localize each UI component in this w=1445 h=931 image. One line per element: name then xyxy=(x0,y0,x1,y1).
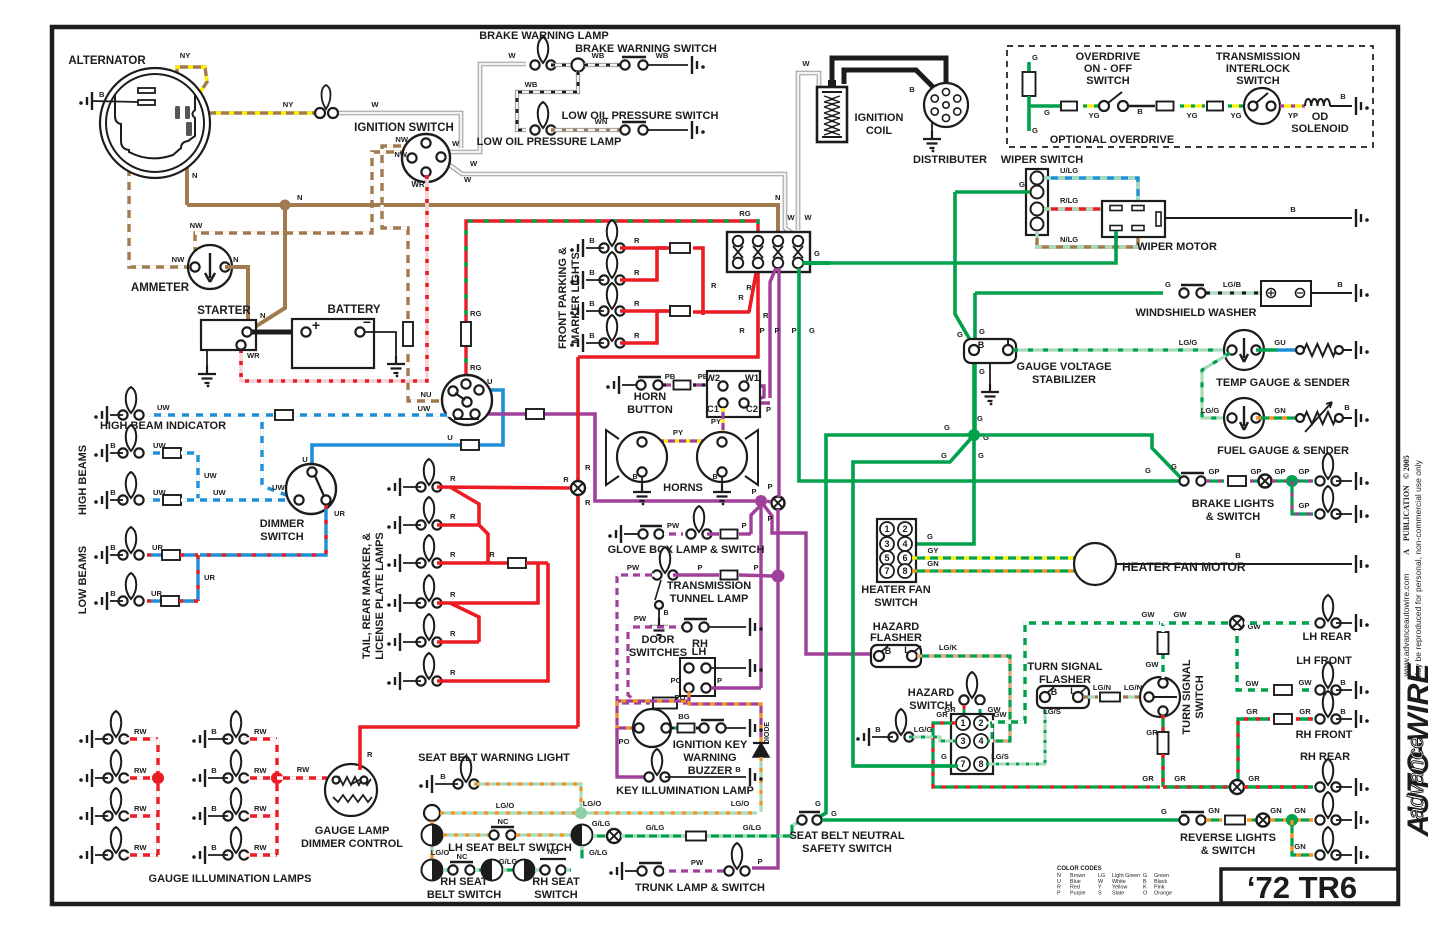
wire LGG hazard xyxy=(909,737,956,741)
brake light switch xyxy=(1179,476,1188,485)
reverse lamp 2 xyxy=(1323,827,1334,853)
RH REAR lamp xyxy=(1323,759,1334,785)
svg-text:A PUBLICATION © 2005: A PUBLICATION © 2005 xyxy=(1402,455,1411,555)
svg-text:GN: GN xyxy=(1274,406,1285,415)
heater fan switch box xyxy=(877,519,916,582)
wire GW hazard riser xyxy=(992,623,1160,722)
svg-text:BUTTON: BUTTON xyxy=(627,404,673,416)
svg-text:R: R xyxy=(450,590,456,599)
svg-text:GN: GN xyxy=(1270,806,1281,815)
svg-text:SWITCHES: SWITCHES xyxy=(629,647,687,659)
hazard flasher box xyxy=(871,645,921,667)
svg-text:R: R xyxy=(585,463,591,472)
svg-text:GAUGE ILLUMINATION LAMPS: GAUGE ILLUMINATION LAMPS xyxy=(149,873,312,885)
horn button ground xyxy=(606,385,610,389)
glove box switch xyxy=(638,529,647,538)
svg-text:RW: RW xyxy=(254,727,267,736)
wire P lighting switch right xyxy=(480,412,526,416)
svg-text:R: R xyxy=(711,281,717,290)
svg-text:LG/O: LG/O xyxy=(496,801,515,810)
high beam indicator lamp xyxy=(126,387,137,413)
battery box xyxy=(292,319,374,368)
svg-text:N: N xyxy=(297,193,302,202)
svg-text:G/LG: G/LG xyxy=(589,848,608,857)
fuse at x=738 xyxy=(733,236,743,246)
wire R trunk vertical xyxy=(576,357,580,727)
svg-text:LG/K: LG/K xyxy=(939,643,958,652)
wire PW trunk xyxy=(664,869,729,872)
wire B solenoid xyxy=(1330,105,1352,107)
svg-text:B: B xyxy=(712,474,717,481)
svg-text:www.advanceautowire.com: www.advanceautowire.com xyxy=(1401,574,1411,678)
wire G fuse4 right xyxy=(803,261,830,265)
svg-text:RG: RG xyxy=(470,309,481,318)
svg-text:BELT SWITCH: BELT SWITCH xyxy=(427,889,501,901)
svg-text:R/LG: R/LG xyxy=(1060,196,1078,205)
connector front2 xyxy=(670,306,690,316)
ignition switch S1 xyxy=(402,134,450,182)
wire to ground low oil switch xyxy=(648,129,688,131)
horn button switch xyxy=(636,380,645,389)
svg-text:GW: GW xyxy=(1145,660,1159,669)
svg-text:G: G xyxy=(1161,807,1167,816)
wire W ignition to fusebox xyxy=(444,161,795,235)
wire UR lowbeam1 xyxy=(147,553,162,556)
svg-text:B: B xyxy=(1340,707,1346,716)
wire R dimmer control up xyxy=(360,727,578,770)
wire P relay jumper W1 C2 xyxy=(749,386,764,401)
svg-text:WIPER SWITCH: WIPER SWITCH xyxy=(1001,154,1084,166)
connector RG inline xyxy=(461,322,471,346)
wire G wiper feed xyxy=(955,190,1030,194)
svg-text:NY: NY xyxy=(283,100,294,109)
wire RW A2 xyxy=(124,776,158,779)
svg-text:UW: UW xyxy=(418,404,431,413)
lighting switch S2 xyxy=(442,375,492,425)
svg-text:IGNITION: IGNITION xyxy=(855,112,904,124)
svg-text:YP: YP xyxy=(1288,111,1298,120)
wire P fuse3 to relay xyxy=(770,268,776,398)
starter box xyxy=(201,320,256,350)
svg-text:UW: UW xyxy=(153,441,166,450)
svg-text:GAUGE VOLTAGE: GAUGE VOLTAGE xyxy=(1017,361,1112,373)
svg-text:COLOR CODES: COLOR CODES xyxy=(1057,866,1102,872)
svg-text:P: P xyxy=(759,326,764,335)
ignition key warning buzzer xyxy=(633,709,671,747)
wire B coil to distributor top xyxy=(832,58,946,94)
svg-text:LG/B: LG/B xyxy=(1223,280,1242,289)
wire GR hazard 1 xyxy=(933,723,1160,787)
wire B alternator ground lead xyxy=(92,101,138,102)
svg-text:GW: GW xyxy=(1173,610,1187,619)
wire B od xyxy=(1128,105,1155,108)
svg-text:B: B xyxy=(589,236,595,245)
tail lamp 6 xyxy=(424,653,435,679)
connector GR RF xyxy=(1274,714,1292,724)
svg-text:R: R xyxy=(738,293,744,302)
svg-text:LG/O: LG/O xyxy=(731,799,750,808)
svg-text:R: R xyxy=(634,236,640,245)
reverse lamp 1 xyxy=(1323,792,1334,818)
svg-text:SWITCH: SWITCH xyxy=(1236,75,1279,87)
svg-text:HEATER FAN MOTOR: HEATER FAN MOTOR xyxy=(1122,560,1246,574)
svg-text:PO: PO xyxy=(675,693,686,702)
svg-text:P: P xyxy=(767,482,772,491)
wire YP od xyxy=(1280,104,1305,107)
connector od 1 xyxy=(1061,102,1077,111)
LH FRONT lamp xyxy=(1323,662,1334,688)
svg-text:B: B xyxy=(632,474,637,481)
svg-text:G: G xyxy=(1032,53,1038,62)
wire NU to lighting switch xyxy=(408,348,462,401)
tail lamp 5 xyxy=(424,614,435,640)
svg-text:& SWITCH: & SWITCH xyxy=(1206,511,1260,523)
svg-text:RH SEAT: RH SEAT xyxy=(440,876,488,888)
svg-text:UW: UW xyxy=(153,488,166,497)
svg-text:GP: GP xyxy=(1209,467,1220,476)
wire N ammeter to starter xyxy=(225,267,248,327)
hazard switch box xyxy=(951,714,993,774)
svg-text:UR: UR xyxy=(151,589,162,598)
svg-text:G: G xyxy=(927,532,933,541)
wire GN down lamp2 xyxy=(1292,820,1313,855)
svg-text:RW: RW xyxy=(134,727,147,736)
wire LGO diode down xyxy=(759,757,762,812)
gauge voltage stabilizer xyxy=(964,339,1016,363)
connector U inline xyxy=(461,440,479,450)
front lamp 1 xyxy=(607,220,618,246)
svg-text:TRANSMISSION: TRANSMISSION xyxy=(1216,51,1300,63)
svg-text:3: 3 xyxy=(960,736,965,746)
svg-text:WR: WR xyxy=(411,180,425,189)
svg-text:C1: C1 xyxy=(707,404,720,415)
LH REAR lamp xyxy=(1323,595,1334,621)
svg-text:RG: RG xyxy=(470,363,481,372)
ammeter M1 xyxy=(188,245,232,289)
svg-text:C2: C2 xyxy=(746,404,758,415)
svg-text:RH FRONT: RH FRONT xyxy=(1296,729,1353,741)
wire GN reverse 3 xyxy=(1270,818,1313,821)
wire GP brake xyxy=(1206,479,1224,482)
wire B wiper motor xyxy=(1165,217,1352,219)
wire R tail row1 to splice xyxy=(437,487,571,488)
svg-text:LOW OIL PRESSURE SWITCH: LOW OIL PRESSURE SWITCH xyxy=(562,110,719,122)
wire RW to dimmer control xyxy=(277,776,327,779)
wire RLG wiper xyxy=(1044,207,1108,210)
svg-text:PY: PY xyxy=(673,428,683,437)
wire P tunnel right xyxy=(673,573,719,576)
svg-text:N: N xyxy=(233,255,238,264)
node G junction xyxy=(968,429,980,441)
svg-text:W: W xyxy=(508,51,516,60)
svg-text:NW: NW xyxy=(395,135,408,144)
svg-text:PO: PO xyxy=(671,676,682,685)
wire G hazard 7 xyxy=(853,764,958,767)
splice GN xyxy=(1257,814,1270,827)
svg-text:GR: GR xyxy=(1246,707,1258,716)
svg-text:P: P xyxy=(717,676,722,685)
wire B heater motor xyxy=(1116,563,1352,565)
svg-text:LG/O: LG/O xyxy=(431,848,450,857)
wire GW top to LH REAR xyxy=(1163,621,1230,624)
svg-text:GN: GN xyxy=(927,559,938,568)
svg-text:R: R xyxy=(450,629,456,638)
fuel gauge xyxy=(1224,398,1264,438)
distributor ground xyxy=(931,121,933,131)
svg-text:G: G xyxy=(941,752,947,761)
svg-text:GR: GR xyxy=(1142,774,1154,783)
connector od 2 xyxy=(1157,102,1174,111)
svg-text:P: P xyxy=(757,857,762,866)
node GP xyxy=(1286,475,1298,487)
svg-text:G: G xyxy=(957,330,963,339)
svg-text:G/LG: G/LG xyxy=(743,823,762,832)
stabilizer ground xyxy=(989,363,991,384)
connector R tail xyxy=(508,558,526,568)
svg-text:SOLENOID: SOLENOID xyxy=(1291,123,1349,135)
fuse at x=758 xyxy=(753,236,763,246)
svg-text:B: B xyxy=(1340,92,1346,101)
title box 72 TR6 xyxy=(1221,869,1398,903)
wire W ignition to brake lamp xyxy=(445,64,526,152)
svg-text:PY: PY xyxy=(711,417,721,426)
svg-text:TURN SIGNAL: TURN SIGNAL xyxy=(1027,661,1102,673)
wiper switch box xyxy=(1026,169,1048,235)
wire GR bottom xyxy=(1163,785,1230,788)
svg-text:−: − xyxy=(363,314,371,330)
svg-text:3: 3 xyxy=(884,539,889,549)
svg-text:PW: PW xyxy=(667,521,680,530)
splice GW LH xyxy=(1230,616,1244,630)
wire R fuse diagonal xyxy=(749,268,757,312)
svg-text:HAZARD: HAZARD xyxy=(908,687,954,699)
svg-text:LG/O: LG/O xyxy=(583,799,602,808)
wire N junction to starter diagonal xyxy=(250,205,285,330)
wire GR ts switch down xyxy=(1161,715,1164,732)
svg-text:R: R xyxy=(489,550,495,559)
wire GN heater xyxy=(912,569,1078,572)
RH door switch xyxy=(682,622,691,631)
svg-text:R: R xyxy=(739,326,745,335)
svg-text:GR: GR xyxy=(1146,728,1158,737)
svg-text:1: 1 xyxy=(884,524,889,534)
svg-text:B: B xyxy=(875,725,881,734)
wire PW glove xyxy=(664,532,683,535)
svg-text:LG/G: LG/G xyxy=(914,725,933,734)
connector GN xyxy=(1225,816,1245,825)
wire B washer xyxy=(1311,292,1352,294)
svg-text:WIPER MOTOR: WIPER MOTOR xyxy=(1137,241,1217,253)
trunk lamp xyxy=(732,843,743,869)
svg-text:TRANSMISSION: TRANSMISSION xyxy=(667,580,751,592)
wire P key illumination xyxy=(617,728,649,777)
svg-text:R: R xyxy=(585,498,591,507)
svg-text:NC: NC xyxy=(457,852,468,861)
low beams lamp 1 xyxy=(126,527,137,553)
svg-text:R: R xyxy=(634,331,640,340)
wire P LH door right xyxy=(711,686,761,689)
hazard switch lamp xyxy=(967,672,978,698)
gauge lamp B3 xyxy=(231,788,242,814)
svg-text:GR: GR xyxy=(1299,707,1311,716)
svg-text:STABILIZER: STABILIZER xyxy=(1032,374,1096,386)
svg-text:B: B xyxy=(1337,280,1343,289)
washer box xyxy=(1261,281,1311,306)
svg-text:B: B xyxy=(99,90,105,99)
wire P fan door xyxy=(759,505,762,688)
heater fan motor xyxy=(1074,543,1116,585)
svg-text:R: R xyxy=(450,474,456,483)
svg-text:BRAKE LIGHTS: BRAKE LIGHTS xyxy=(1192,498,1275,510)
wire R tail row2 xyxy=(437,523,479,527)
svg-text:DIMMER: DIMMER xyxy=(260,518,305,530)
wire R tail to row4 xyxy=(437,563,538,603)
splice P xyxy=(772,497,785,510)
gauge lamp A1 xyxy=(111,711,122,737)
wire LGN flasher xyxy=(1083,695,1098,698)
wire WR starter to ignition xyxy=(241,175,427,381)
svg-text:P: P xyxy=(791,326,796,335)
wire GR to RH REAR lamp xyxy=(1244,785,1313,788)
wire LGO down col xyxy=(430,821,433,859)
svg-text:HORNS: HORNS xyxy=(663,482,703,494)
svg-text:SWITCH: SWITCH xyxy=(260,531,303,543)
wire UW indicator row xyxy=(147,413,276,416)
wire G wiper motor return xyxy=(802,231,1116,263)
svg-text:LH REAR: LH REAR xyxy=(1303,631,1352,643)
svg-text:NW: NW xyxy=(394,150,407,159)
wire WN lamp to switch xyxy=(551,128,620,132)
gauge lamp B2 xyxy=(231,750,242,776)
svg-text:BG: BG xyxy=(678,712,689,721)
wire GW LF 2 xyxy=(1296,688,1313,691)
svg-text:WR: WR xyxy=(247,351,260,360)
wire PY C1 to horn xyxy=(721,408,724,440)
svg-text:R: R xyxy=(634,299,640,308)
wire P glove to fan xyxy=(707,532,719,535)
svg-text:STARTER: STARTER xyxy=(197,305,251,317)
wire NY alternator internal xyxy=(177,67,207,110)
svg-text:DOOR: DOOR xyxy=(642,634,675,646)
svg-text:P: P xyxy=(753,563,758,572)
wire RW B3 xyxy=(244,814,277,817)
od on-off switch xyxy=(1099,101,1109,111)
svg-text:L: L xyxy=(1070,686,1076,696)
wire G brake feed xyxy=(799,268,1179,481)
wire R front3 out xyxy=(693,310,750,314)
svg-text:NC: NC xyxy=(498,817,509,826)
node P transmission xyxy=(772,570,785,583)
svg-text:Purple: Purple xyxy=(1070,890,1086,896)
svg-text:G: G xyxy=(979,367,985,376)
wire NLG wiper xyxy=(1037,231,1138,247)
wire GY heater xyxy=(912,556,1076,559)
svg-text:AMMETER: AMMETER xyxy=(131,282,190,294)
svg-text:LICENSE PLATE LAMPS: LICENSE PLATE LAMPS xyxy=(374,532,386,660)
wire UW highbeam1 xyxy=(147,451,163,454)
wire R front4 xyxy=(620,311,667,343)
svg-text:7: 7 xyxy=(960,759,965,769)
wire GW ts switch up xyxy=(1161,652,1164,678)
wire NW alternator to ammeter xyxy=(129,92,190,267)
svg-text:W: W xyxy=(371,100,379,109)
svg-text:U: U xyxy=(447,433,453,442)
svg-text:May be reproduced for personal: May be reproduced for personal, non-comm… xyxy=(1413,459,1423,679)
svg-text:5: 5 xyxy=(884,553,889,563)
wire PY horn bridge xyxy=(642,439,723,442)
svg-text:RH SEAT: RH SEAT xyxy=(532,876,580,888)
svg-text:R: R xyxy=(634,268,640,277)
connector NY-W bullet xyxy=(315,108,325,118)
connector NW inline xyxy=(403,322,413,346)
wire GLG to splice xyxy=(593,834,607,837)
wire UW branch to dimmer xyxy=(262,415,297,499)
svg-text:2: 2 xyxy=(902,524,907,534)
connector front1 xyxy=(670,243,690,253)
wiper motor box xyxy=(1102,201,1165,237)
svg-text:N: N xyxy=(260,311,265,320)
svg-text:+: + xyxy=(312,317,320,333)
washer switch xyxy=(1179,288,1188,297)
wire RG lighting switch up to fuse 2 xyxy=(466,221,758,379)
svg-text:Orange: Orange xyxy=(1154,890,1172,896)
starter ground xyxy=(206,350,208,366)
svg-text:SWITCH: SWITCH xyxy=(1086,75,1129,87)
node LGO xyxy=(575,807,587,819)
svg-text:SWITCH: SWITCH xyxy=(534,889,577,901)
connector UW xyxy=(275,410,293,420)
svg-text:B: B xyxy=(211,843,217,852)
svg-text:SWITCH: SWITCH xyxy=(874,597,917,609)
glove box lamp xyxy=(694,506,705,532)
svg-text:G: G xyxy=(809,326,815,335)
svg-text:BUZZER: BUZZER xyxy=(688,765,733,777)
svg-text:GY: GY xyxy=(928,546,939,555)
wire NW ammeter up and right xyxy=(195,152,412,261)
svg-text:HIGH BEAM INDICATOR: HIGH BEAM INDICATOR xyxy=(100,420,226,432)
svg-text:UW: UW xyxy=(204,471,217,480)
svg-text:P: P xyxy=(774,326,779,335)
wire ULG wiper xyxy=(1044,178,1138,205)
logo advance auto-wire xyxy=(1402,663,1435,838)
wire PB button to connector xyxy=(663,383,671,386)
hazard LGG lamp xyxy=(896,709,907,735)
svg-text:P: P xyxy=(766,405,771,414)
svg-text:NW: NW xyxy=(190,221,203,230)
fuse at x=798 xyxy=(793,236,803,246)
svg-text:W: W xyxy=(804,213,812,222)
svg-text:8: 8 xyxy=(902,566,907,576)
wire R tail to row6 xyxy=(437,563,548,681)
wire GW to LH REAR lamp xyxy=(1244,621,1313,624)
gauge lamp A2 xyxy=(111,750,122,776)
svg-text:G: G xyxy=(1044,108,1050,117)
buzzer switch xyxy=(699,723,708,732)
wire P fuse3 straight down xyxy=(777,268,780,497)
high beams lamp 1 xyxy=(126,425,137,451)
svg-text:GR: GR xyxy=(1248,774,1260,783)
svg-text:B: B xyxy=(110,543,116,552)
svg-text:BRAKE WARNING SWITCH: BRAKE WARNING SWITCH xyxy=(575,43,717,55)
svg-text:GW: GW xyxy=(1141,610,1155,619)
svg-text:GP: GP xyxy=(1299,501,1310,510)
brake lamp 1 xyxy=(1323,453,1334,479)
alternator U1 xyxy=(100,68,210,178)
connector PB xyxy=(674,381,691,390)
svg-text:UR: UR xyxy=(204,573,215,582)
wire P fan glove xyxy=(751,505,761,534)
node WB xyxy=(572,59,585,72)
